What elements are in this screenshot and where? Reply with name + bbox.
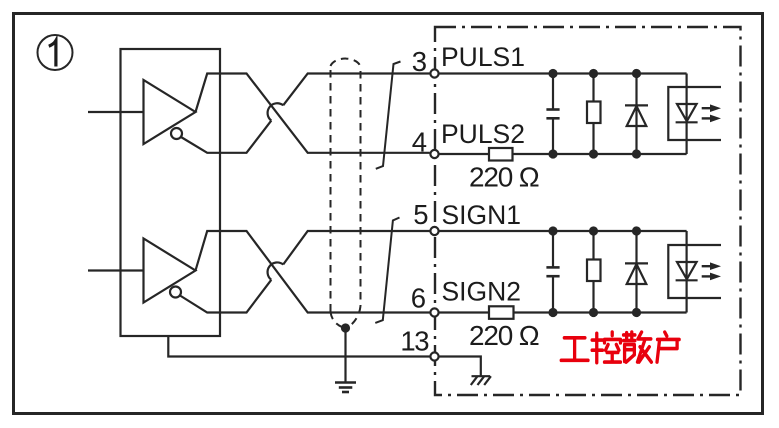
svg-text:4: 4 xyxy=(412,127,427,158)
light arrows PC2 xyxy=(702,262,721,280)
opto-coupler PC1 LED xyxy=(676,74,698,155)
wire twisted pair PULS (non-inverting leg) xyxy=(196,74,430,153)
svg-text:220 Ω: 220 Ω xyxy=(469,320,539,351)
resistor R1 (vertical) xyxy=(587,74,601,155)
circled number 1 label xyxy=(38,35,73,70)
junction dot PULS1/R1 xyxy=(589,69,598,78)
chassis ground near pin 13 xyxy=(471,376,491,385)
wire twisted pair PULS (inverting leg with hop) xyxy=(181,121,271,153)
wire from driver box bottom to pin 13 xyxy=(168,336,430,357)
junction dot PULS1/C1 xyxy=(548,69,557,78)
wire PULS2 left segment xyxy=(439,153,489,155)
terminal 3 xyxy=(430,69,438,77)
junction dot SIGN1/D2 xyxy=(632,226,641,235)
inversion bubble on driver A xyxy=(171,128,182,139)
svg-text:6: 6 xyxy=(411,283,426,314)
svg-text:SIGN1: SIGN1 xyxy=(442,200,522,230)
wire SIGN2 right segment xyxy=(514,311,687,313)
svg-text:5: 5 xyxy=(413,199,428,230)
wire SIGN2 left segment xyxy=(439,311,489,313)
svg-text:PULS2: PULS2 xyxy=(441,119,525,149)
cable shield dashed oval xyxy=(331,59,361,328)
line driver IC box U1 xyxy=(121,49,221,336)
inversion bubble on driver B xyxy=(170,287,181,298)
svg-text:3: 3 xyxy=(412,46,427,77)
opto-coupler PC1 box xyxy=(668,87,721,140)
wire pin13 to chassis ground xyxy=(439,357,481,377)
resistor R2 (vertical) xyxy=(587,231,601,313)
cable slash mark (SIGN pair) xyxy=(375,218,399,323)
terminal 5 xyxy=(430,227,438,235)
diode D1 xyxy=(625,74,648,155)
junction dot PULS1/D1 xyxy=(632,69,641,78)
junction dot SIGN2/D2 xyxy=(632,308,641,317)
opto-coupler PC2 box xyxy=(668,245,721,298)
svg-text:SIGN2: SIGN2 xyxy=(442,276,522,306)
earth ground (shield) xyxy=(335,383,356,393)
wire PULS2 right segment xyxy=(513,153,687,155)
shield junction dot xyxy=(341,323,350,332)
cable slash mark (PULS pair) xyxy=(376,62,401,169)
svg-text:PULS1: PULS1 xyxy=(441,42,525,72)
servo amplifier dash-dot boundary xyxy=(435,27,741,395)
capacitor C1 xyxy=(546,74,559,155)
junction dot SIGN1/C2 xyxy=(548,226,557,235)
junction dot PULS2/C1 xyxy=(548,149,557,158)
wire shield to earth xyxy=(344,328,346,383)
wire PULS1 row xyxy=(439,72,686,74)
buffer/driver triangle B xyxy=(144,239,196,303)
terminal 4 xyxy=(430,150,438,158)
light arrows PC1 xyxy=(702,104,721,122)
wire twisted pair SIGN (non-inverting leg) xyxy=(196,231,430,313)
buffer/driver triangle A xyxy=(144,80,196,144)
opto-coupler PC2 LED xyxy=(676,231,698,313)
svg-text:13: 13 xyxy=(400,326,429,357)
junction dot SIGN1/R2 xyxy=(589,226,598,235)
diode D2 xyxy=(625,231,648,313)
junction dot SIGN2/C2 xyxy=(548,308,557,317)
junction dot PULS2/D1 xyxy=(632,149,641,158)
red watermark text xyxy=(561,332,679,363)
wire input stub to buffer A xyxy=(88,111,144,113)
resistor 220 ohm (SIGN2) xyxy=(489,306,514,319)
svg-text:220 Ω: 220 Ω xyxy=(469,161,539,192)
capacitor C2 xyxy=(546,231,559,313)
terminal 13 xyxy=(430,352,438,360)
wire twisted pair SIGN (inverting leg with hop) xyxy=(180,280,271,313)
wire input stub to buffer B xyxy=(88,269,144,271)
junction dot SIGN2/R2 xyxy=(589,308,598,317)
wire SIGN1 row xyxy=(439,230,686,232)
terminal 6 xyxy=(430,308,438,316)
junction dot PULS2/R1 xyxy=(589,149,598,158)
resistor 220 ohm (PULS2) xyxy=(489,148,513,161)
